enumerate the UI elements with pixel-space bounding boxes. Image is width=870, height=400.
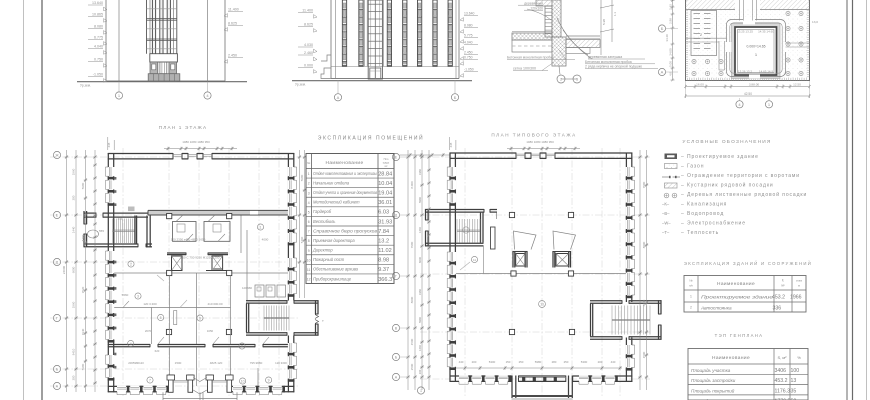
typical plan room circles [471,256,545,307]
svg-text:5.775: 5.775 [464,34,473,38]
svg-text:8000: 8000 [642,241,646,248]
svg-text:Г: Г [395,275,397,279]
uslovnye oboznacheniya title [682,139,771,145]
svg-text:200: 200 [472,360,477,364]
svg-text:250: 250 [564,360,569,364]
svg-text:8.080: 8.080 [94,25,103,29]
genplan path branch right [786,43,810,47]
svg-text:12.50: 12.50 [793,82,801,86]
svg-text:– Газон: – Газон [681,164,704,170]
svg-text:1960: 1960 [72,168,76,175]
svg-text:– Ограждение территории с в: – Ограждение территории с воротами [681,173,800,179]
svg-text:120 3.300: 120 3.300 [143,302,157,306]
svg-text:1.1: 1.1 [613,12,617,16]
plan 1 room band wall [108,344,288,347]
svg-text:1176.3: 1176.3 [775,388,791,394]
svg-text:Отдел комплектования и эксперт: Отдел комплектования и экспертизы [313,171,377,176]
svg-text:6000: 6000 [72,266,76,273]
svg-text:0.000: 0.000 [304,64,313,68]
plan 1 right stairwell treads [264,306,289,331]
svg-text:Наименование: Наименование [325,160,363,166]
legend item fence [662,173,800,179]
detail timber ladder column [545,6,552,37]
plan 1 elevator shafts [167,253,228,271]
typical plan right stair annex [590,300,662,340]
svg-text:-1.050: -1.050 [93,73,103,77]
svg-text:8.625: 8.625 [304,23,313,27]
svg-text:150: 150 [506,360,511,364]
svg-text:2065980120: 2065980120 [128,361,144,365]
svg-text:1: 1 [308,172,310,176]
svg-text:1: 1 [420,389,422,393]
sheet frame right edge line [866,0,868,400]
svg-text:УСЛОВНЫЕ ОБОЗНАЧЕНИЯ: УСЛОВНЫЕ ОБОЗНАЧЕНИЯ [682,139,771,145]
svg-text:А: А [661,70,664,75]
elevation facade 1-4 entrance spandrel band [150,54,178,62]
svg-text:2: 2 [560,78,562,82]
svg-text:ПЛАН ТИПОВОГО ЭТАЖА: ПЛАН ТИПОВОГО ЭТАЖА [491,133,576,138]
svg-text:10: 10 [307,258,311,262]
svg-text:6000: 6000 [418,257,422,263]
plan 1 axis grid lines [50,148,300,396]
svg-text:2: 2 [700,33,702,37]
svg-text:7980: 7980 [642,181,646,188]
svg-text:9.37: 9.37 [378,267,389,273]
svg-text:Наименование: Наименование [717,281,755,287]
svg-text:2.450: 2.450 [228,54,237,58]
svg-text:1440: 1440 [418,345,422,351]
svg-text:– Кустарник рядовой посадки: – Кустарник рядовой посадки [681,182,774,189]
svg-text:4825 120: 4825 120 [210,361,223,365]
svg-text:2.62: 2.62 [669,4,673,10]
svg-text:5.00: 5.00 [669,61,673,67]
svg-text:– Деревья лиственные рядовой: – Деревья лиственные рядовой посадки [681,191,807,198]
svg-text:11.400: 11.400 [228,8,239,12]
detail underlayer left [512,40,552,52]
plan 1 door leafs [123,301,269,344]
svg-text:200: 200 [598,360,603,364]
svg-text:–Т–: –Т– [662,230,670,235]
svg-text:Ур.зем.: Ур.зем. [80,84,91,88]
genplan axis B left [658,25,678,32]
typical plan left stair annex [425,209,497,249]
svg-text:S, м²: S, м² [778,355,788,360]
plan 1 interior dimension texts [118,217,288,366]
elevation 1-4 level marks right [224,8,243,64]
legend item building [665,154,759,161]
typical plan right stairwell treads [612,306,650,335]
svg-text:13.2: 13.2 [378,238,389,244]
elevation facade 1-4 entrance [150,62,177,74]
svg-text:1966: 1966 [790,295,802,301]
svg-text:24.00: 24.00 [669,48,673,56]
detail timber beam 120x100 [518,0,560,10]
svg-text:Ур.зем.: Ур.зем. [295,83,306,87]
detail label derevyannaya zaglushka [588,55,645,59]
elevation facade 1-4 base plinth [148,74,180,81]
svg-text:5980: 5980 [535,360,542,364]
svg-text:11.400: 11.400 [302,9,313,13]
genplan parking area [691,11,717,56]
svg-text:1: 1 [690,295,692,299]
svg-text:5980: 5980 [418,317,422,323]
explication zdaniy table [684,276,806,313]
elevation A-B entrance steps left [321,55,331,79]
plan 1 entrance porches below [163,392,237,400]
svg-text:5980: 5980 [81,363,85,370]
legend item teploset [662,230,719,236]
svg-text:8000: 8000 [642,299,646,306]
svg-text:2670: 2670 [145,329,152,333]
svg-text:4500: 4500 [410,338,414,345]
elevation A-B axis B [451,81,458,101]
svg-text:Справочное бюро пропусков: Справочное бюро пропусков [313,228,378,233]
svg-text:ТЭП ГЕНПЛАНА: ТЭП ГЕНПЛАНА [715,333,764,338]
legend item kustarnik [665,182,774,189]
svg-text:0.000=14.65: 0.000=14.65 [747,45,766,49]
plan 1 interior columns [166,329,231,334]
svg-text:5980: 5980 [418,197,422,203]
genplan path left vertical [719,41,725,70]
svg-text:–W–: –W– [662,221,671,226]
svg-text:1440: 1440 [72,226,76,233]
genplan dimension row 2 overall [684,81,811,98]
typical plan elevator cores [513,251,572,268]
svg-text:5980: 5980 [300,174,304,181]
svg-text:Автостоянка: Автостоянка [700,306,732,311]
typical plan room partitions [460,213,497,274]
sheet frame right border inner [846,0,848,400]
svg-text:2.460: 2.460 [304,51,313,55]
typical plan axis grid lines [420,148,650,396]
genplan site boundary [686,0,810,81]
svg-text:3: 3 [308,191,310,195]
svg-text:10: 10 [241,379,245,383]
explication zdaniy title [684,261,812,266]
plan 1 right stair annex [246,300,324,335]
genplan footpath ring around building [726,19,788,79]
svg-text:11: 11 [307,268,311,272]
svg-text:3: 3 [576,78,578,82]
genplan right dim 13.0 [812,20,818,24]
sheet frame left border [41,0,43,400]
typical plan stairwell treads [457,219,480,243]
plan 1 top dimension row [107,137,237,150]
svg-text:– Проектируемое здание: – Проектируемое здание [681,154,759,160]
svg-text:8.98: 8.98 [378,258,389,264]
svg-text:Проектируемое здание: Проектируемое здание [701,295,774,300]
plan 1 lower room partition [114,275,230,344]
elevation 1-4 level marks left [88,1,107,82]
svg-text:1: 1 [260,225,262,229]
plan 1 right dimension chain [298,150,307,298]
plan 1 room number circles [128,224,272,384]
typical plan corridor partition [456,271,626,276]
genplan top road hatch [686,0,810,10]
svg-text:4: 4 [308,201,310,205]
svg-text:1940: 1940 [81,328,85,335]
svg-text:120х100: 120х100 [530,6,543,10]
svg-text:35: 35 [791,388,797,394]
svg-text:34.40: 34.40 [665,34,669,42]
svg-text:9: 9 [308,249,310,253]
detail right slab layers [566,36,600,54]
svg-text:120 2350 к450 4850 1650: 120 2350 к450 4850 1650 [171,238,206,242]
svg-text:деревянная заглушка: деревянная заглушка [588,55,622,59]
plan 1 left axis circles [53,151,60,389]
svg-text:8: 8 [241,344,243,348]
svg-text:5300: 5300 [581,360,588,364]
svg-text:3520: 3520 [81,286,85,293]
svg-text:4000: 4000 [262,238,269,242]
elevation facade 1-4 stair glazing tower [147,0,177,54]
svg-text:6.03: 6.03 [378,210,389,216]
plan 1 right wall [288,153,297,392]
svg-text:11: 11 [473,258,476,262]
genplan axis A left [658,68,678,75]
elevation facade 1-4 outline [106,0,225,81]
svg-text:сетка 100/300: сетка 100/300 [513,67,536,71]
svg-text:440: 440 [459,360,464,364]
svg-text:Начальник отдела: Начальник отдела [313,180,350,185]
svg-text:120 3300: 120 3300 [275,361,287,365]
svg-text:10.865: 10.865 [92,13,103,17]
svg-text:Бетонная монолитная пробка: Бетонная монолитная пробка [507,56,554,60]
detail concrete plug [552,37,566,66]
svg-text:1080 1080 1080 950: 1080 1080 1080 950 [526,140,554,144]
genplan fence tick marks [686,0,810,81]
detail dimension lines right [600,0,617,55]
elevation 1-4 axis 4 [204,82,211,99]
plan 1 lower partitions vertical [170,273,259,386]
detail floor slab left [512,32,552,41]
tep genplana title [715,333,764,338]
tep genplana table [688,349,808,400]
svg-text:5460: 5460 [81,234,85,241]
svg-text:7: 7 [149,378,151,382]
svg-text:795.9680: 795.9680 [250,361,263,365]
svg-text:1650: 1650 [207,329,214,333]
plan 1 bottom entrance bays [167,375,233,394]
svg-text:8.000: 8.000 [410,181,414,189]
svg-text:555: 555 [118,217,123,221]
plan 1 lower corridor partition [114,270,288,275]
svg-text:– Теплосеть: – Теплосеть [681,230,719,236]
svg-text:– Канализация: – Канализация [681,202,727,208]
detail label betonnaya probka right [585,60,655,64]
genplan trees right rows [692,11,803,75]
svg-text:1080 1080 1080 950: 1080 1080 1080 950 [182,140,210,144]
plan 1 washroom cubicles [247,273,288,301]
svg-text:1960: 1960 [418,169,422,175]
typical plan interior dimension row [456,360,622,370]
svg-text:2500: 2500 [410,363,414,370]
svg-text:100: 100 [791,368,800,374]
elevation A-B level marks left [298,9,317,74]
elevation 1-4 ground line [77,82,247,88]
svg-text:6: 6 [199,316,201,320]
svg-text:Бетонная монолитная пробка: Бетонная монолитная пробка [585,60,632,64]
svg-text:555: 555 [99,229,104,233]
svg-text:-1.050: -1.050 [464,68,474,72]
svg-text:13.640: 13.640 [464,12,474,16]
legend item vodoprovod [662,211,724,217]
legend item gazon [665,164,705,170]
svg-text:5980: 5980 [81,182,85,189]
svg-text:– Водопровод: – Водопровод [681,211,724,217]
svg-text:4.040: 4.040 [94,45,103,49]
typical plan bottom wall [450,375,633,384]
detail wall masonry hatched [552,0,561,37]
svg-text:620: 620 [155,349,160,353]
svg-text:Методический кабинет: Методический кабинет [313,200,360,205]
svg-text:–К–: –К– [662,202,670,207]
typical plan left dimension chains [406,150,431,390]
svg-text:– Электроснабжение: – Электроснабжение [681,221,746,227]
plan 1 left wall [106,153,115,392]
svg-text:2.450: 2.450 [464,51,473,55]
svg-text:8000: 8000 [410,296,414,303]
detail label 2 ryada kirpicha [585,65,658,69]
svg-text:0.750: 0.750 [94,58,103,62]
svg-text:этаж: этаж [796,279,802,283]
svg-text:5.98: 5.98 [602,19,606,25]
typical plan interior columns [509,212,574,334]
svg-text:Приемная директора: Приемная директора [313,238,355,243]
typical plan right wall [626,153,635,383]
svg-text:Пло: Пло [384,157,389,161]
svg-text:11.02: 11.02 [378,248,392,254]
typical plan left wall [447,153,456,383]
svg-text:6: 6 [308,220,310,224]
svg-text:5560: 5560 [122,293,129,297]
svg-text:28.84: 28.84 [378,171,392,177]
legend item kanalizaciya [662,202,727,208]
svg-text:Площадь покрытий: Площадь покрытий [691,387,735,393]
typical plan left axis circles [392,153,408,380]
svg-text:А: А [337,95,340,100]
svg-text:8.625: 8.625 [228,22,237,26]
genplan building level label [747,45,766,58]
svg-text:7: 7 [308,230,310,234]
typical plan bottom axis circle 1 [417,387,424,394]
svg-text:42.50: 42.50 [744,92,752,96]
svg-text:деревянный: деревянный [524,2,543,6]
explication pomescheniy title [318,134,424,142]
svg-text:4500: 4500 [642,351,646,358]
svg-text:4.040: 4.040 [464,41,473,45]
svg-text:14.35 14.60: 14.35 14.60 [758,30,774,34]
svg-text:Б: Б [661,26,664,31]
elevation A-B ground line [292,81,472,87]
detail leader arcs [527,9,592,59]
genplan building corner marks [737,30,774,74]
svg-text:12: 12 [307,278,311,282]
svg-text:Г: Г [56,317,58,321]
svg-text:410 000.00: 410 000.00 [207,302,222,306]
svg-text:5460: 5460 [300,236,304,243]
explication table [306,154,394,284]
svg-text:Пожарный пост: Пожарный пост [313,257,345,262]
svg-text:м²: м² [385,165,388,168]
svg-text:13: 13 [540,302,544,306]
legend item derevya [664,191,807,198]
typical plan title [491,133,576,138]
typical plan right dimension chains [638,150,648,390]
plan 1 stairwell treads [113,216,137,244]
plan 1 bottom wall [108,386,294,395]
svg-text:Гардероб: Гардероб [313,209,332,214]
svg-text:8410: 8410 [72,348,76,355]
svg-text:200: 200 [72,195,76,200]
plan 1 corridor wall [84,207,288,219]
svg-text:м²: м² [781,284,784,288]
svg-text:200: 200 [72,375,76,380]
svg-text:10.04: 10.04 [378,181,392,187]
genplan building footprint [732,24,781,79]
svg-text:8.080: 8.080 [464,24,473,28]
svg-text:Б: Б [454,95,457,100]
svg-text:6.775: 6.775 [94,36,103,40]
svg-text:453.2: 453.2 [775,378,788,384]
svg-text:5300: 5300 [489,360,496,364]
plan 1 left dimension chains [62,150,97,392]
svg-text:5: 5 [308,210,310,214]
legend item elektro [662,221,746,227]
elevation A-B axis A [334,81,341,101]
genplan left dimension column [665,0,675,81]
detail node circles 2 3 [557,66,581,83]
axis E dimension line to typical plan [400,153,450,157]
genplan path mid horizontal [686,38,727,42]
plan 1 left stair annex [84,211,105,247]
svg-text:Отдел учета и хранения докумен: Отдел учета и хранения документов [313,190,378,195]
genplan axis 4 [736,98,743,108]
svg-text:ЭКСПЛИКАЦИЯ ПОМЕЩЕНИЙ: ЭКСПЛИКАЦИЯ ПОМЕЩЕНИЙ [318,134,424,142]
svg-text:19.04: 19.04 [378,191,392,197]
svg-text:366.3: 366.3 [378,277,392,283]
svg-text:–В–: –В– [662,211,670,216]
svg-text:Директор: Директор [312,248,333,253]
svg-text:Площадь участка: Площадь участка [691,368,731,373]
plan 1 mid vertical partition [246,230,248,273]
svg-text:0.750: 0.750 [464,56,473,60]
svg-text:13,0: 13,0 [812,20,818,24]
typical plan top wall [450,153,633,159]
svg-text:36.01: 36.01 [378,200,392,206]
plan 1 top wall [108,153,294,159]
plan 1 stair bay closing wall [84,216,153,248]
svg-text:1440: 1440 [418,227,422,233]
elevation A-B level marks right [460,12,478,78]
svg-text:п/п: п/п [689,284,693,288]
svg-text:2.88: 2.88 [669,18,673,24]
svg-text:250 С 750 9250 М12500 250: 250 С 750 9250 М12500 250 [181,256,220,260]
svg-text:F,: F, [782,279,785,283]
svg-text:ЭКСПЛИКАЦИЯ ЗДАНИЙ И СООРУЖ: ЭКСПЛИКАЦИЯ ЗДАНИЙ И СООРУЖЕНИЙ [684,261,812,266]
svg-text:2: 2 [308,182,310,186]
svg-text:9: 9 [268,378,270,382]
svg-text:Вестибюль: Вестибюль [313,219,335,224]
genplan dimension row 1 [684,82,811,88]
svg-text:5: 5 [160,316,162,320]
svg-text:4.030: 4.030 [304,43,313,47]
svg-text:1960: 1960 [72,301,76,308]
svg-text:13.25 13.25: 13.25 13.25 [737,30,753,34]
svg-text:2 ряда кирпича не опорной: 2 ряда кирпича не опорной подушке [585,65,642,69]
elevation A-B window strips [342,0,452,66]
svg-text:31.93: 31.93 [378,219,392,225]
